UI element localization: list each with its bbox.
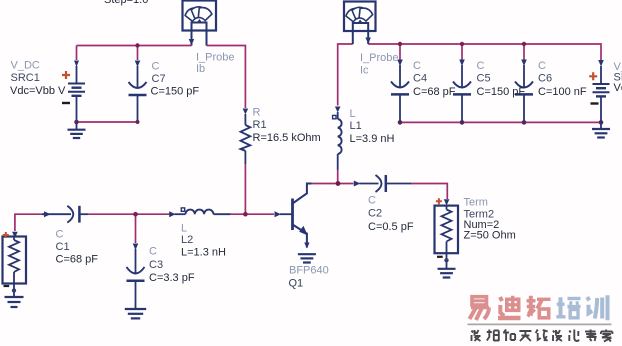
label L2 xyxy=(181,234,193,246)
wire Vcc top rail xyxy=(368,44,601,60)
svg-text:L2: L2 xyxy=(181,234,193,246)
svg-text:L1: L1 xyxy=(350,120,362,132)
svg-text:Q1: Q1 xyxy=(289,278,304,290)
label C=0.5 pF of C2 xyxy=(368,221,414,233)
label C=150 pF of C7 xyxy=(151,86,200,98)
label C of C4 xyxy=(413,60,421,72)
node at C3 junction xyxy=(133,212,138,217)
node at collector junction xyxy=(336,181,341,186)
wire L2 to base xyxy=(230,213,274,215)
node at C4 top xyxy=(398,42,402,46)
svg-text:C=0.5 pF: C=0.5 pF xyxy=(368,221,414,233)
label V_DC xyxy=(11,60,40,72)
label C of C2 xyxy=(368,195,376,207)
svg-text:Term: Term xyxy=(464,197,488,209)
svg-text:Ib: Ib xyxy=(196,63,205,75)
node at SRC1 bottom xyxy=(74,120,79,125)
svg-text:C=100 nF: C=100 nF xyxy=(538,86,587,98)
svg-text:C=3.3 pF: C=3.3 pF xyxy=(149,272,195,284)
label L=3.9 nH xyxy=(350,133,395,145)
node at C6 bottom xyxy=(522,120,527,125)
capacitor C2 xyxy=(354,175,411,192)
label L of L2 xyxy=(181,223,187,235)
svg-text:Vdc=Vbb V: Vdc=Vbb V xyxy=(10,85,66,97)
watermark subtitle char tian xyxy=(519,331,531,341)
wire R1 to base junction xyxy=(244,164,246,215)
label L1 xyxy=(350,120,362,132)
label Vdc=Vcc V clipped xyxy=(614,82,622,94)
plus sign Term2 xyxy=(436,198,442,204)
svg-text:C=68 pF: C=68 pF xyxy=(413,86,456,98)
svg-text:C: C xyxy=(368,195,376,207)
label C=68 pF of C4 xyxy=(413,86,456,98)
ground C3 xyxy=(125,309,146,318)
wire C5 top stub xyxy=(461,44,463,60)
node at C7 top xyxy=(135,43,139,47)
dc source SRC1 xyxy=(68,61,85,130)
label Ib xyxy=(196,63,205,75)
svg-text:L=1.3 nH: L=1.3 nH xyxy=(181,247,226,259)
label C1 xyxy=(56,241,70,253)
svg-text:Vdc=Vcc V: Vdc=Vcc V xyxy=(614,82,622,94)
ground SRC1 xyxy=(68,130,86,138)
svg-text:C=150 pF: C=150 pF xyxy=(477,86,526,98)
watermark logo blue char xun xyxy=(587,295,607,320)
wire C4 top stub xyxy=(399,44,401,60)
svg-text:SRC1: SRC1 xyxy=(11,72,40,84)
svg-text:Ic: Ic xyxy=(360,65,369,77)
label R1 xyxy=(253,119,267,131)
node at C7 bottom xyxy=(136,120,140,124)
label SRC2 clipped xyxy=(614,72,622,84)
node at C6 top xyxy=(522,42,526,46)
label C3 xyxy=(149,259,163,271)
ground Q1 emitter xyxy=(298,254,316,262)
label C2 xyxy=(368,208,382,220)
watermark logo blue char pei xyxy=(556,297,580,318)
watermark subtitle char xian xyxy=(536,330,548,342)
label C5 xyxy=(477,73,491,85)
svg-text:C: C xyxy=(477,60,485,72)
svg-text:C3: C3 xyxy=(149,259,163,271)
label R=16.5 kOhm xyxy=(253,132,321,144)
wire C1 to L2 xyxy=(88,213,170,215)
watermark subtitle char he xyxy=(503,330,515,342)
label L of L1 xyxy=(350,108,356,120)
watermark subtitle char she2 xyxy=(553,330,562,341)
svg-text:C6: C6 xyxy=(538,73,552,85)
svg-text:C: C xyxy=(538,60,546,72)
partial text Step= xyxy=(104,0,148,6)
wire Ic left and down to L1 xyxy=(338,44,353,106)
wire L1 bottom to collector junction xyxy=(337,169,339,184)
svg-text:Step=1.0: Step=1.0 xyxy=(104,0,148,6)
label C of C3 xyxy=(149,246,157,258)
label R of R1 xyxy=(253,107,261,119)
minus sign SRC2 xyxy=(591,102,599,104)
node at Term2 bottom xyxy=(444,258,448,262)
svg-text:C: C xyxy=(152,61,160,73)
node at C5 bottom xyxy=(460,120,465,125)
wire C6 top stub xyxy=(523,44,525,60)
watermark subtitle char jia xyxy=(601,330,613,342)
svg-text:C5: C5 xyxy=(477,73,491,85)
plus sign Term1 xyxy=(3,232,9,238)
svg-text:L: L xyxy=(181,223,187,235)
svg-text:Z=50 Ohm: Z=50 Ohm xyxy=(464,230,516,242)
minus sign SRC1 xyxy=(62,102,70,104)
svg-text:L: L xyxy=(350,108,356,120)
label Num=2 xyxy=(464,219,500,231)
port term Term1 xyxy=(3,232,27,296)
svg-text:R=16.5 kOhm: R=16.5 kOhm xyxy=(253,132,321,144)
label C of C7 xyxy=(152,61,160,73)
wire SRC1 top stub xyxy=(76,46,78,61)
svg-text:C7: C7 xyxy=(152,73,166,85)
ground SRC2 xyxy=(592,129,610,138)
svg-text:C: C xyxy=(149,246,157,258)
watermark subtitle char pin xyxy=(487,330,499,342)
label C of C1 xyxy=(56,229,64,241)
wire C7 top stub xyxy=(137,46,139,61)
svg-text:C1: C1 xyxy=(56,241,70,253)
label C=150 pF of C5 xyxy=(477,86,526,98)
wire C2 to Term2 xyxy=(411,184,448,200)
watermark logo red char di xyxy=(498,296,521,318)
wire bias bottom rail xyxy=(77,121,138,123)
watermark subtitle char she xyxy=(472,330,481,341)
dc source SRC2 xyxy=(593,60,610,128)
label Q1 xyxy=(289,278,304,290)
plus sign SRC2 xyxy=(589,72,597,80)
ground Term2 xyxy=(438,269,456,278)
watermark logo red char yi xyxy=(470,297,490,320)
watermark subtitle char ji xyxy=(569,330,579,342)
wire Vcc bottom rail xyxy=(400,121,601,123)
wire top-left rail xyxy=(77,45,192,47)
transistor Q1 xyxy=(275,184,312,249)
svg-text:R1: R1 xyxy=(253,119,267,131)
svg-text:C: C xyxy=(56,229,64,241)
term Term2 xyxy=(435,199,459,268)
plus sign SRC1 xyxy=(62,71,70,79)
capacitor C3 xyxy=(127,244,145,309)
node at C5 top xyxy=(460,42,464,46)
label C of C6 xyxy=(538,60,546,72)
capacitor C1 xyxy=(42,206,88,223)
label C of C5 xyxy=(477,60,485,72)
label SRC1 xyxy=(11,72,40,84)
current probe Ib xyxy=(183,1,217,46)
label I_Probe of Ic xyxy=(360,52,399,64)
watermark subtitle char zhuan xyxy=(585,330,596,342)
label I_Probe of Ib xyxy=(196,52,235,64)
label C7 xyxy=(152,73,166,85)
svg-text:I_Probe: I_Probe xyxy=(360,52,399,64)
resistor R1 xyxy=(241,109,251,164)
label Term xyxy=(464,197,488,209)
ground Term1 xyxy=(5,297,24,307)
label C=3.3 pF of C3 xyxy=(149,272,195,284)
node at C4 bottom xyxy=(398,120,403,125)
minus sign Term2 xyxy=(437,256,443,258)
wire collector node to C2 xyxy=(310,183,354,185)
inductor L2 xyxy=(169,208,230,217)
watermark logo underline xyxy=(468,323,612,325)
label C=100 nF of C6 xyxy=(538,86,587,98)
wire C3 stub xyxy=(135,214,137,243)
label V_DC of SRC2 clipped xyxy=(614,61,622,73)
label Vdc=Vbb V xyxy=(10,85,66,97)
wire input rail left xyxy=(15,214,42,231)
svg-text:L=3.9 nH: L=3.9 nH xyxy=(350,133,395,145)
label C=68 pF of C1 xyxy=(56,254,99,266)
capacitor C4 xyxy=(391,60,409,123)
capacitor C7 xyxy=(129,61,147,123)
capacitor C5 xyxy=(453,60,471,123)
svg-text:C=150 pF: C=150 pF xyxy=(151,86,200,98)
label C6 xyxy=(538,73,552,85)
label Term2 xyxy=(464,209,495,221)
node at base junction R1 xyxy=(243,212,248,217)
svg-text:C: C xyxy=(413,60,421,72)
label Ic xyxy=(360,65,369,77)
label C4 xyxy=(413,73,427,85)
label BFP640 xyxy=(289,265,329,277)
svg-text:C2: C2 xyxy=(368,208,382,220)
capacitor C6 xyxy=(515,60,533,123)
svg-text:I_Probe: I_Probe xyxy=(196,52,235,64)
svg-text:C=68 pF: C=68 pF xyxy=(56,254,99,266)
svg-text:V_DC: V_DC xyxy=(11,60,40,72)
inductor L1 xyxy=(333,107,342,170)
svg-text:BFP640: BFP640 xyxy=(289,265,329,277)
node at SRC2 bottom xyxy=(599,120,604,125)
label L=1.3 nH xyxy=(181,247,226,259)
node at Term1 bottom xyxy=(12,288,16,292)
minus sign Term1 xyxy=(4,285,10,287)
svg-text:R: R xyxy=(253,107,261,119)
wire I_Probe Ib to R1 xyxy=(207,46,246,109)
current probe Ic xyxy=(344,2,376,45)
svg-text:C4: C4 xyxy=(413,73,427,85)
watermark logo red char tuo xyxy=(527,296,551,318)
label Z=50 Ohm xyxy=(464,230,516,242)
